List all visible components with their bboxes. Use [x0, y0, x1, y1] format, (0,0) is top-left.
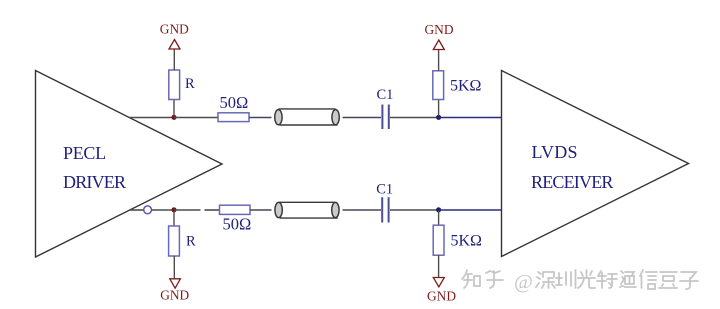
capacitor C1 (bottom) — [376, 182, 393, 223]
svg-text:@: @ — [514, 271, 533, 293]
glyph guang — [578, 270, 595, 288]
wire 5K resistor to GND arrow top right — [438, 50, 440, 71]
transmission line TL1 (top coax cylinder) — [275, 109, 340, 125]
glyph tong — [620, 271, 636, 287]
resistor R (top pull resistor) — [169, 70, 180, 100]
wire node D to receiver input bottom — [439, 209, 502, 211]
wire node A to 50ohm resistor — [174, 117, 218, 119]
wire node D down to 5K resistor — [438, 211, 440, 225]
glyph te — [597, 271, 617, 288]
ground GND (bottom left power port, arrow down) — [160, 279, 189, 303]
svg-text:DRIVER: DRIVER — [63, 172, 126, 192]
svg-text:R: R — [185, 76, 195, 92]
svg-text:50Ω: 50Ω — [223, 215, 252, 234]
ground GND (top right power port) — [425, 22, 454, 49]
glyph hu — [486, 271, 503, 288]
svg-text:C1: C1 — [376, 182, 393, 198]
glyph xin — [640, 270, 657, 289]
wire node A up to resistor R — [173, 100, 175, 117]
glyph zhou — [556, 270, 576, 288]
transmission line TL2 (bottom coax cylinder) — [275, 202, 339, 218]
wire 50ohm to transmission line bottom — [250, 209, 272, 211]
wire driver inverted output stub — [129, 209, 144, 211]
svg-text:5KΩ: 5KΩ — [450, 78, 482, 95]
inversion bubble on driver output — [144, 206, 152, 214]
svg-text:GND: GND — [427, 288, 456, 303]
wire transmission line to capacitor C1 — [343, 117, 382, 119]
wire node C to 50ohm resistor (with break) — [174, 209, 220, 211]
ground GND (bottom right power port, arrow down) — [427, 278, 456, 304]
svg-text:5KΩ: 5KΩ — [451, 233, 483, 250]
glyph dou — [659, 272, 677, 288]
resistor 5K (bottom pull resistor) — [433, 225, 444, 255]
wire capacitor C1 to node B — [390, 117, 438, 119]
resistor 50ohm (bottom series) — [220, 205, 251, 214]
wire node B to receiver input top — [439, 117, 502, 119]
svg-text:LVDS: LVDS — [532, 142, 578, 162]
node B (top receiver side junction) — [436, 115, 441, 120]
wire driver output to node A — [129, 117, 174, 119]
wire node C down to resistor R bottom — [173, 211, 175, 226]
resistor R (bottom pull resistor) — [169, 226, 180, 256]
svg-text:GND: GND — [160, 288, 189, 303]
glyph zhi — [462, 270, 480, 288]
svg-text:PECL: PECL — [63, 143, 106, 163]
ground GND (top left power port) — [160, 21, 189, 49]
watermark 知乎 @深圳光特通信豆子 — [462, 270, 698, 293]
resistor 50ohm (top series) — [218, 113, 249, 122]
glyph shen — [536, 272, 555, 288]
svg-text:C1: C1 — [377, 87, 394, 103]
svg-text:GND: GND — [160, 21, 189, 36]
wire 50ohm to transmission line — [249, 117, 272, 119]
wire bubble to node C — [152, 209, 175, 211]
wire 5K resistor to GND arrow bottom right — [438, 255, 440, 277]
svg-text:50Ω: 50Ω — [220, 93, 249, 112]
node C (bottom driver side junction) — [171, 207, 176, 212]
node D (bottom receiver side junction) — [436, 207, 441, 212]
svg-text:RECEIVER: RECEIVER — [531, 172, 613, 192]
wire resistor R to GND arrow — [173, 49, 175, 70]
LVDS receiver U2 triangle — [502, 71, 689, 257]
resistor 5K (top pull resistor) — [433, 71, 444, 100]
svg-text:GND: GND — [425, 22, 454, 37]
wire transmission line to capacitor C1 bottom — [343, 209, 382, 211]
node A (top driver side junction) — [171, 115, 176, 120]
wire node B up to 5K resistor — [438, 100, 440, 117]
capacitor C1 (top) — [377, 87, 394, 129]
wire resistor R to GND arrow bottom left — [173, 256, 175, 279]
svg-text:R: R — [186, 234, 196, 250]
PECL driver U1 triangle — [36, 71, 223, 258]
glyph zi — [680, 272, 698, 289]
wire capacitor to node D — [390, 209, 438, 211]
